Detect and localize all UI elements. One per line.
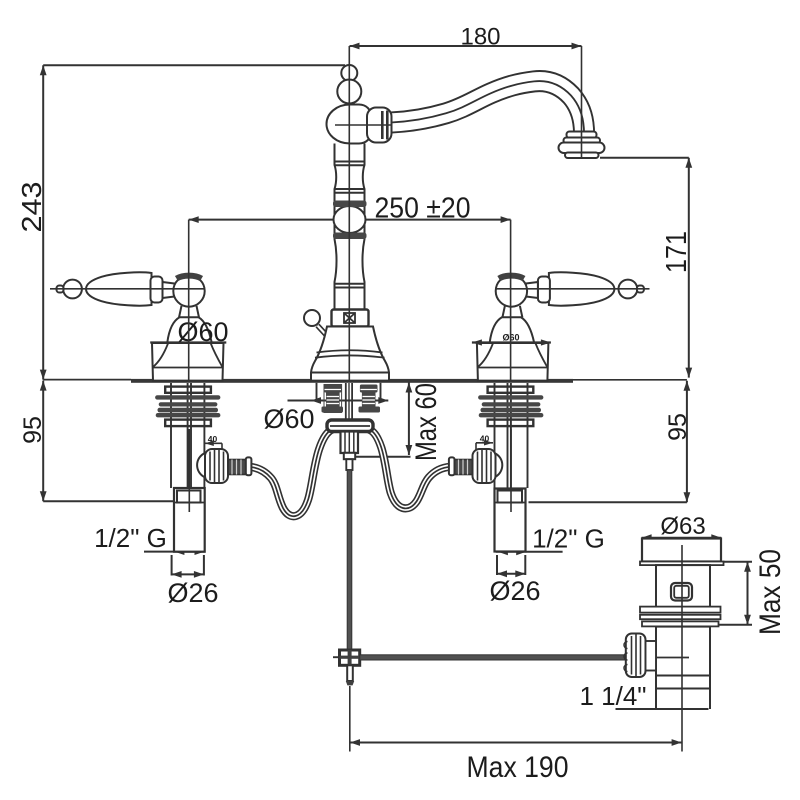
column ring upper bbox=[333, 201, 367, 208]
svg-text:Ø60: Ø60 bbox=[263, 404, 314, 434]
drain stub bbox=[646, 641, 657, 671]
elbow left nut bbox=[205, 449, 228, 483]
elbow left dome bbox=[197, 452, 206, 477]
dim 180 line bbox=[350, 43, 582, 50]
stack left flange bar upper bbox=[165, 387, 211, 393]
dim 95 right bbox=[529, 380, 691, 503]
elbow right nut bbox=[473, 449, 496, 483]
handle right base bbox=[477, 343, 549, 381]
dim Max 60 bbox=[356, 383, 412, 457]
centreline column bbox=[348, 46, 350, 380]
spout outlet bell bbox=[559, 132, 605, 159]
svg-text:95: 95 bbox=[19, 416, 47, 444]
svg-text:Ø26: Ø26 bbox=[489, 576, 540, 606]
elbow left stub bbox=[228, 460, 246, 475]
centreline joint horizontal bbox=[335, 124, 392, 126]
handle right pivot ball bbox=[496, 275, 527, 306]
handle right bonnet bbox=[490, 317, 534, 342]
svg-text:Ø63: Ø63 bbox=[660, 513, 705, 540]
svg-text:243: 243 bbox=[16, 182, 47, 233]
finial large ball bbox=[337, 80, 361, 104]
pop-up bracket bbox=[327, 420, 373, 432]
column bell base bbox=[311, 327, 389, 381]
centreline tail right bbox=[510, 429, 512, 512]
dim O60 centre bbox=[288, 397, 389, 404]
centreline handle right axis bbox=[496, 288, 650, 290]
handle right neck bbox=[526, 282, 538, 298]
column shaft bbox=[335, 144, 365, 310]
stack left tail block bbox=[174, 488, 205, 552]
handle right base rim with O60 arrows bbox=[472, 339, 551, 345]
stack left flange bar lower bbox=[165, 420, 211, 427]
handle left pivot ball bbox=[173, 275, 204, 306]
handle left tip bbox=[57, 286, 64, 293]
drain lock rings bbox=[640, 607, 721, 627]
stack right verticals bbox=[495, 383, 528, 488]
dim Max 190 bbox=[350, 686, 682, 752]
dim 1 1/4 leader bbox=[616, 708, 657, 710]
drain body tick bbox=[656, 657, 689, 659]
handle left collar bbox=[151, 277, 163, 303]
rod clamp bbox=[333, 650, 360, 665]
handle left bonnet bbox=[167, 317, 211, 342]
drain knurled nut bbox=[624, 634, 646, 678]
handle right lever grip bbox=[549, 272, 615, 305]
spout socket bbox=[367, 108, 392, 143]
svg-text:250 ±20: 250 ±20 bbox=[375, 193, 471, 225]
drain body bbox=[656, 565, 710, 607]
column ring lower bbox=[333, 233, 367, 240]
dim 40 left bbox=[205, 441, 222, 451]
svg-text:1 1/4": 1 1/4" bbox=[579, 681, 646, 711]
elbow right dome bbox=[493, 452, 502, 477]
svg-text:171: 171 bbox=[661, 231, 693, 273]
dim 40 right bbox=[476, 440, 493, 450]
spout tee joint bbox=[327, 105, 372, 144]
elbow right stub bbox=[454, 460, 472, 475]
dim 1/2 G left bbox=[144, 548, 205, 555]
stack left nut bands bbox=[155, 395, 220, 417]
centreline spout outlet bbox=[581, 46, 583, 158]
dim 243 bbox=[40, 65, 345, 379]
stack right flange bar upper bbox=[488, 387, 534, 393]
drain lower body bbox=[656, 627, 710, 709]
dim O63 bbox=[642, 534, 722, 541]
stack right tail block bbox=[495, 489, 526, 552]
dim 171 bbox=[600, 158, 692, 378]
centreline handle left vertical bbox=[188, 220, 190, 380]
svg-text:Max 50: Max 50 bbox=[754, 549, 787, 635]
svg-text:180: 180 bbox=[460, 24, 500, 51]
svg-text:Ø26: Ø26 bbox=[167, 578, 218, 608]
elbow left collar bbox=[246, 457, 252, 475]
handle left lever grip bbox=[86, 272, 152, 305]
centre tail right bbox=[359, 385, 381, 413]
handle left cap bbox=[177, 276, 202, 279]
dim O26 right bbox=[497, 555, 525, 577]
svg-text:95: 95 bbox=[664, 413, 692, 441]
column ball bbox=[334, 206, 366, 233]
handle right cap bbox=[499, 276, 524, 279]
dim 95 left bbox=[40, 381, 174, 502]
handle left lower neck bbox=[179, 306, 199, 318]
column base block bbox=[332, 310, 369, 327]
pop-up knob bbox=[304, 310, 329, 338]
centreline handle left axis bbox=[50, 288, 205, 290]
handle right end ball bbox=[619, 280, 638, 299]
rod guide tube bbox=[346, 383, 352, 421]
dim Max 50 bbox=[719, 562, 753, 625]
handle right tip bbox=[637, 286, 644, 293]
handle left end ball bbox=[63, 280, 82, 299]
svg-text:Max 60: Max 60 bbox=[410, 383, 443, 461]
centre skirt below deck bbox=[317, 383, 381, 400]
handle right collar bbox=[538, 277, 550, 303]
horizontal pop-up rod bbox=[360, 655, 627, 660]
centre tail right stripes bbox=[360, 390, 377, 404]
drain square hole bbox=[671, 583, 692, 601]
pop-up vertical rod bbox=[347, 470, 352, 650]
dim O26 left bbox=[172, 555, 204, 578]
svg-text:1/2" G: 1/2" G bbox=[532, 524, 605, 554]
svg-text:Max 190: Max 190 bbox=[467, 751, 569, 784]
svg-text:1/2" G: 1/2" G bbox=[94, 523, 167, 553]
hose left bbox=[249, 429, 333, 516]
centreline drain bbox=[681, 545, 683, 752]
centre tail left bbox=[322, 385, 344, 413]
handle left neck bbox=[163, 282, 175, 298]
svg-text:Ø60: Ø60 bbox=[177, 317, 228, 347]
svg-text:40: 40 bbox=[480, 434, 490, 444]
handle left base bbox=[152, 343, 224, 381]
deck line bbox=[43, 379, 573, 383]
dim 1/2 G right bbox=[496, 548, 563, 555]
elbow right collar bbox=[449, 457, 455, 475]
rod holder bbox=[341, 432, 359, 471]
stack right nut bands bbox=[478, 395, 543, 417]
spout tube bbox=[391, 81, 584, 131]
handle right lower neck bbox=[502, 306, 522, 318]
centre tail left stripes bbox=[325, 390, 342, 404]
rod lower link bbox=[346, 665, 354, 685]
centreline handle right vertical bbox=[510, 220, 512, 380]
stack right flange bar lower bbox=[488, 420, 534, 427]
dim 250 +-20 bbox=[189, 216, 511, 223]
handle left base rim bbox=[150, 341, 226, 343]
drain flange bbox=[640, 539, 724, 566]
hose right bbox=[369, 429, 451, 508]
finial small ball bbox=[341, 65, 357, 81]
stack left verticals bbox=[171, 383, 204, 488]
svg-text:40: 40 bbox=[208, 434, 218, 444]
centreline tail left bbox=[188, 429, 190, 512]
